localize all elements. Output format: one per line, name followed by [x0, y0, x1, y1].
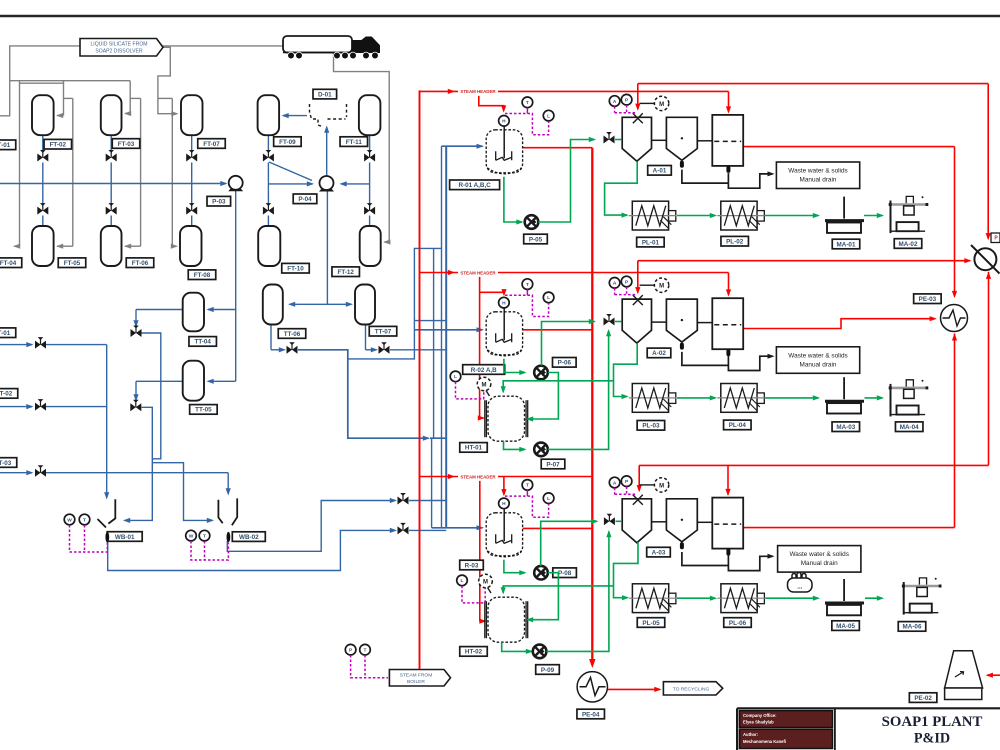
wire TT-01 to WB-01 — [0, 344, 32, 346]
wire P-04 to D-01 — [326, 127, 328, 176]
wire to FT-03 — [129, 81, 131, 114]
wire feed R-03 — [432, 527, 483, 529]
svg-text:PE-02: PE-02 — [914, 695, 932, 702]
wire trunk drop to R-03 level — [431, 438, 433, 528]
svg-text:T: T — [526, 483, 529, 489]
green A-01 outlet to PL-01 — [605, 161, 638, 215]
svg-text:TT-05: TT-05 — [195, 407, 212, 414]
valve TT-07 outlet — [379, 342, 390, 354]
red out row2 dryer to PE-03 — [743, 319, 935, 329]
instrument R-03 TI — [522, 480, 533, 491]
svg-text:Waste water & solids: Waste water & solids — [789, 551, 848, 558]
drain wire row2 — [682, 352, 729, 366]
instrument R-02 LI — [543, 292, 554, 303]
svg-text:MA-06: MA-06 — [903, 624, 922, 631]
valve WB-02 line — [398, 493, 409, 505]
tank FT-08 — [180, 226, 202, 266]
instrument R-01 LI — [543, 110, 554, 121]
hopper mixer — [666, 117, 697, 160]
valve FT-08 inlet — [186, 203, 197, 215]
waste box row1 — [776, 162, 859, 189]
svg-text:TT-07: TT-07 — [375, 329, 392, 336]
page border top — [0, 15, 1000, 18]
blue trunk vertical 2 — [441, 146, 443, 528]
svg-text:Manual drain: Manual drain — [800, 361, 837, 368]
outlet valve blob — [680, 161, 684, 168]
red out row3 dryer — [744, 527, 955, 529]
heat exchanger PE-03 — [941, 305, 968, 332]
dryer vessel row1 — [712, 115, 743, 166]
link wire — [652, 139, 667, 141]
svg-text:FT-04: FT-04 — [0, 260, 17, 267]
green HT-01 to P-07 — [504, 441, 526, 449]
red wire row3 upper — [639, 464, 988, 466]
plodder PL-04 — [721, 384, 757, 413]
steam drop row2 to dryer — [728, 273, 730, 295]
pump P-05 — [525, 215, 539, 229]
green P-09 riser to valve A-03 bottom — [547, 532, 609, 652]
link wire — [652, 321, 667, 323]
svg-text:HT-02: HT-02 — [465, 649, 483, 656]
svg-text:R-03: R-03 — [465, 562, 479, 569]
red out R-03 — [523, 527, 593, 529]
label FT-07 — [198, 139, 226, 149]
green A-03 outlet to PL-05 — [614, 542, 639, 598]
wire feed R-02 — [414, 329, 482, 331]
plodder PL-02 — [721, 201, 757, 230]
label P-03 — [207, 196, 231, 206]
motor M HT-02 — [479, 574, 493, 588]
green PL-06 to MA-05 — [765, 597, 818, 599]
outlet valve blob — [680, 542, 684, 549]
green PL-04 to MA-03 — [765, 397, 818, 399]
wire tank column — [191, 135, 193, 152]
green PL-05 to PL-06 — [677, 597, 715, 599]
red wire PE-03 bottom — [954, 334, 956, 528]
green P-08 jog to HT-02 — [528, 573, 559, 620]
steam wire row1 top to mix valve — [638, 83, 988, 85]
instrument R-02 HIC — [499, 297, 510, 308]
label FT-03 — [112, 139, 140, 149]
instrument WB-01 WI — [64, 514, 75, 525]
wire tank column — [110, 135, 112, 152]
svg-text:H: H — [502, 119, 506, 125]
svg-text:Manual drain: Manual drain — [800, 177, 837, 184]
svg-text:A-02: A-02 — [652, 350, 666, 357]
label FT-05 — [58, 258, 86, 268]
instrument R-03 LI — [543, 493, 554, 504]
svg-text:MA-03: MA-03 — [836, 424, 855, 431]
svg-text:MA-05: MA-05 — [836, 623, 855, 630]
svg-text:M: M — [659, 102, 664, 108]
steam riser row2 to mix valve — [637, 261, 639, 293]
signal wires R-02 — [526, 289, 528, 295]
wire tank column — [267, 135, 269, 152]
tank FT-05 — [32, 226, 54, 266]
label MA-03 — [832, 422, 860, 432]
green HT-02 to P-09 — [502, 642, 532, 651]
svg-text:Mechanomena Kanefi: Mechanomena Kanefi — [743, 739, 786, 744]
valve FT-03 outlet — [106, 150, 117, 162]
svg-text:STEAM HEADER: STEAM HEADER — [460, 89, 496, 94]
svg-text:TT-04: TT-04 — [194, 339, 211, 346]
label R-01 A,B,C — [450, 180, 500, 190]
wire diagonal FT-09 valve to P-04 — [269, 162, 312, 181]
label FT-02 — [44, 139, 72, 149]
valve TT-04 outlet — [131, 326, 142, 338]
instrument WB-02 WI — [186, 530, 197, 541]
heated tank HT-01 — [488, 396, 525, 441]
valve FT-11 outlet — [364, 150, 375, 162]
green MA-05 to MA-06 — [865, 597, 882, 599]
label HT-02 — [460, 647, 488, 657]
signal wires WB-01 — [70, 525, 108, 552]
steam header text — [458, 268, 498, 277]
instrument A-03 AI — [609, 477, 620, 488]
label PL-06 — [724, 618, 752, 628]
red out row1 dryer to PE-03 top — [743, 146, 954, 148]
svg-text:HT-01: HT-01 — [465, 445, 483, 452]
label MA-01 — [832, 239, 860, 249]
link wire — [697, 521, 712, 523]
svg-text:A: A — [613, 281, 617, 287]
instrument R-01 TI — [522, 97, 533, 108]
pump P-09 — [533, 645, 547, 659]
green A-02 outlet to PL-03 — [614, 343, 638, 397]
tank TT-05 — [183, 361, 204, 401]
instrument A-02 PI — [621, 276, 632, 287]
banner STEAM FROM BOILER — [389, 670, 450, 687]
dryer vessel row2 — [712, 298, 743, 349]
svg-text:M: M — [483, 579, 488, 585]
svg-text:TT-03: TT-03 — [0, 460, 12, 467]
green MA-03 to MA-04 — [865, 397, 883, 399]
green R-02 to P-06 — [504, 359, 525, 373]
wire branch to WB-02 left — [152, 463, 212, 521]
outlet valve blob — [726, 549, 730, 556]
svg-text:Waste water & solids: Waste water & solids — [788, 168, 847, 175]
wire feed R-01 — [442, 145, 483, 147]
waste box row2 — [776, 347, 859, 374]
instrument boiler PI — [345, 644, 356, 655]
pump P-06 — [534, 366, 548, 380]
steam branch row3 to HT-02 — [479, 477, 481, 622]
svg-text:FT-02: FT-02 — [50, 142, 67, 149]
dissolver D-01 — [310, 104, 347, 127]
stamper MA-04 — [889, 380, 929, 417]
svg-text:R-01 A,B,C: R-01 A,B,C — [458, 182, 491, 189]
wire to FT-04 — [19, 81, 21, 246]
valve TT-03 line — [35, 465, 46, 477]
svg-text:M: M — [482, 382, 487, 388]
red out R-01 — [523, 147, 593, 149]
valve A-03 inlet — [604, 514, 615, 526]
svg-text:STEAM HEADER: STEAM HEADER — [460, 474, 496, 479]
valve WB-01 line — [398, 523, 409, 535]
label TT-02 — [0, 389, 18, 399]
green valve to A-01 — [615, 139, 622, 141]
steam header row2 — [420, 272, 729, 274]
svg-text:L: L — [454, 374, 457, 380]
steam jog row1 to R-01 — [479, 91, 504, 111]
svg-text:TT-02: TT-02 — [0, 391, 13, 398]
banner TO RECYCLING — [663, 682, 722, 695]
label TT-05 — [190, 405, 218, 415]
red stub to PE-02 — [987, 674, 1000, 676]
outlet valve blob — [726, 166, 730, 173]
svg-text:P-08: P-08 — [558, 570, 572, 577]
label R-03 — [460, 560, 484, 570]
svg-text:WB-02: WB-02 — [239, 534, 259, 541]
outlet valve blob — [726, 349, 730, 356]
drain wire row3 — [682, 552, 729, 566]
pump P-08 — [534, 566, 548, 580]
svg-text:STEAM HEADER: STEAM HEADER — [460, 270, 496, 275]
valve FT-10 inlet — [263, 203, 274, 215]
svg-text:...: ... — [797, 585, 802, 591]
svg-text:T: T — [83, 517, 86, 523]
signal wires HT-01 — [456, 382, 484, 399]
tank FT-03 — [101, 95, 122, 135]
svg-text:T: T — [203, 533, 206, 539]
svg-text:T: T — [526, 100, 529, 106]
label PL-04 — [724, 420, 752, 430]
label WB-02 — [232, 532, 265, 542]
green P-08 riser to valve A-03 — [541, 521, 597, 566]
svg-text:TT-06: TT-06 — [284, 331, 301, 338]
green P-05 riser to valve A-01 — [539, 140, 595, 223]
label PE-01 — [991, 233, 1000, 243]
svg-text:P-07: P-07 — [546, 461, 560, 468]
motor M A-02 — [640, 284, 655, 286]
motor M HT-01 — [477, 377, 491, 391]
svg-text:P&ID: P&ID — [914, 731, 950, 747]
wire riser jog 2 — [414, 320, 446, 322]
green PL-02 to MA-01 — [765, 215, 818, 217]
signal wires A-01 — [614, 106, 616, 113]
motor M A-01 — [640, 102, 655, 104]
wire from banner to FT-07 — [158, 47, 177, 113]
wire TT-02 joins — [0, 406, 32, 408]
svg-text:FT-06: FT-06 — [132, 260, 149, 267]
svg-text:M: M — [659, 284, 664, 290]
svg-text:FT-07: FT-07 — [203, 141, 220, 148]
svg-text:BOILER: BOILER — [407, 679, 425, 685]
plodder PL-05 — [632, 584, 668, 613]
hopper A-02 — [622, 299, 651, 343]
svg-text:T: T — [526, 282, 529, 288]
press table MA-05 — [843, 579, 845, 601]
red PE-04 to recycling — [607, 688, 660, 690]
label PE-04 — [577, 709, 605, 719]
cooling tower PE-02 — [945, 651, 983, 688]
svg-text:PL-04: PL-04 — [729, 422, 747, 429]
svg-text:A: A — [613, 480, 617, 486]
label FT-12 — [332, 267, 360, 277]
svg-text:TT-01: TT-01 — [0, 330, 11, 337]
svg-text:P-04: P-04 — [298, 196, 312, 203]
green R-01 to P-05 — [504, 177, 522, 222]
tank TT-06 — [263, 285, 283, 325]
weigh bin WB-01 — [98, 499, 116, 527]
outlet valve blob — [680, 343, 684, 350]
green PL-01 to PL-02 — [677, 215, 715, 217]
tank FT-06 — [101, 226, 122, 266]
wire TT-06 out — [270, 325, 272, 350]
label FT-10 — [282, 263, 310, 273]
instrument WB-02 TI — [199, 530, 210, 541]
valve TT-06 outlet — [287, 342, 298, 354]
press table MA-03 — [843, 377, 845, 399]
green P-07 riser to valve A-02 bottom — [548, 331, 609, 450]
wire P-03 down to TT-04 TT-05 — [235, 191, 237, 382]
label P-05 — [524, 234, 548, 244]
svg-text:Elyes Shadylab: Elyes Shadylab — [743, 719, 774, 724]
tank TT-04 — [183, 293, 204, 332]
label TT-07 — [369, 326, 397, 336]
signal wires boiler — [351, 655, 388, 678]
tank FT-12 — [360, 226, 381, 266]
instrument R-01 HIC — [499, 116, 510, 127]
wire TT-05 valve to WB-01 — [125, 407, 153, 520]
label P-04 — [293, 194, 317, 204]
svg-text:MA-04: MA-04 — [900, 424, 919, 431]
svg-text:LIQUID SILICATE FROM: LIQUID SILICATE FROM — [90, 42, 147, 48]
blue trunk vertical — [445, 146, 447, 528]
svg-text:H: H — [502, 501, 506, 507]
reactor R-03 — [486, 513, 522, 556]
valve FT-07 outlet — [186, 150, 197, 162]
wire TT-07 out to trunk — [365, 325, 367, 350]
svg-text:MA-01: MA-01 — [837, 241, 856, 248]
green P-06 jog to HT-01 — [528, 373, 559, 420]
label D-01 — [313, 89, 337, 99]
svg-text:P-09: P-09 — [541, 667, 555, 674]
wire from truck left to FT-01 area — [0, 46, 284, 116]
svg-text:W: W — [67, 517, 72, 523]
valve TT-01 line — [35, 337, 46, 349]
instrument R-03 HIC — [499, 498, 510, 509]
steam drop row3 to dryer — [727, 465, 729, 494]
tank FT-09 — [258, 95, 280, 135]
steam riser row1 to A-01 — [637, 84, 639, 109]
label FT-01 — [0, 140, 16, 150]
svg-text:PL-02: PL-02 — [726, 239, 744, 246]
tank FT-07 — [181, 95, 203, 135]
label TT-01 — [0, 328, 16, 338]
wire TT-04 valve out — [142, 333, 161, 459]
reactor R-01 A,B,C — [486, 130, 522, 173]
label MA-06 — [898, 622, 926, 632]
instrument boiler TI — [360, 644, 371, 655]
svg-text:FT-10: FT-10 — [287, 266, 304, 273]
label A-03 — [647, 547, 671, 557]
link wire — [652, 521, 667, 523]
instrument WB-01 TI — [79, 514, 90, 525]
svg-text:P-06: P-06 — [558, 360, 572, 367]
dryer vessel row3 — [712, 498, 743, 549]
svg-text:W: W — [189, 533, 194, 539]
instrument A-03 PI — [621, 476, 632, 487]
signal wires WB-02 — [191, 541, 228, 560]
label HT-01 — [460, 443, 488, 453]
green branch to HT-01 top — [503, 381, 613, 392]
valve TT-02 line — [35, 399, 46, 411]
label A-02 — [647, 348, 671, 358]
label P-06 — [553, 358, 577, 368]
svg-text:A-03: A-03 — [652, 549, 666, 556]
valve FT-12 inlet — [364, 203, 375, 215]
label PL-03 — [637, 421, 665, 431]
label P-08 — [553, 568, 577, 578]
svg-text:PE-03: PE-03 — [919, 296, 937, 303]
label P-09 — [536, 665, 560, 675]
label MA-05 — [832, 621, 860, 631]
svg-text:PL-06: PL-06 — [729, 620, 747, 627]
drain wire row1 — [682, 170, 729, 184]
wire to FT-08 — [158, 97, 172, 99]
svg-text:FT-08: FT-08 — [194, 272, 211, 279]
wire TT-03 to WB-02 — [0, 472, 32, 474]
svg-text:FT-11: FT-11 — [346, 139, 363, 146]
label A-01 — [648, 166, 672, 176]
label PL-05 — [637, 618, 665, 628]
svg-text:SOAP2 DISSOLVER: SOAP2 DISSOLVER — [95, 49, 143, 55]
svg-text:R-02 A,B: R-02 A,B — [471, 367, 497, 374]
label R-02 A,B — [463, 365, 505, 375]
green R-03 to P-08 — [504, 560, 525, 573]
svg-text:FT-01: FT-01 — [0, 142, 11, 149]
svg-text:L: L — [547, 295, 550, 301]
agitator mark — [633, 495, 643, 505]
svg-text:P-03: P-03 — [212, 199, 226, 206]
agitator mark — [633, 295, 643, 305]
svg-text:P-05: P-05 — [529, 236, 543, 243]
signal wires A-03 — [614, 488, 616, 495]
svg-text:PL-03: PL-03 — [642, 423, 660, 430]
label FT-08 — [188, 270, 216, 280]
manual drain hand — [788, 573, 813, 593]
label PE-02 — [909, 693, 937, 703]
label MA-04 — [895, 422, 923, 432]
svg-text:FT-09: FT-09 — [279, 139, 296, 146]
wire from truck to FT-12 — [334, 53, 390, 242]
green branch to HT-02 top — [503, 586, 613, 593]
link wire — [697, 140, 712, 142]
valve FT-09 outlet — [263, 150, 274, 162]
svg-text:A-01: A-01 — [653, 168, 667, 175]
instrument A-01 AI — [609, 96, 620, 107]
mixing valve PE-01 — [974, 248, 996, 270]
tank FT-10 — [258, 226, 280, 266]
svg-text:T: T — [364, 648, 367, 654]
svg-text:PL-01: PL-01 — [642, 239, 660, 246]
green P-06 riser to valve A-02 — [542, 322, 595, 366]
agitator mark — [633, 113, 643, 123]
stamper MA-06 — [902, 578, 942, 615]
steam header text — [458, 472, 498, 481]
steam header text — [458, 87, 498, 96]
label PL-01 — [637, 237, 665, 247]
valve A-02 inlet — [604, 314, 615, 326]
svg-text:PL-05: PL-05 — [642, 620, 660, 627]
waste box row3 — [778, 546, 861, 573]
wire D-01 to FT-09 — [283, 115, 307, 117]
svg-text:SOAP1 PLANT: SOAP1 PLANT — [882, 714, 983, 730]
wire WB-02 out to valve — [227, 501, 395, 552]
wire tank column — [42, 135, 44, 152]
label TT-04 — [189, 337, 217, 347]
